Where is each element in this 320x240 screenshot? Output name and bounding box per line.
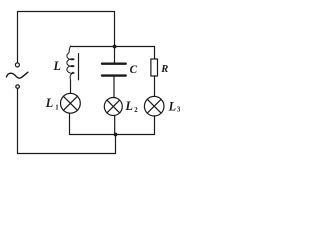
wire middle bus — [71, 46, 155, 48]
wire resistor branch top — [154, 47, 156, 60]
ac source terminal top — [15, 63, 19, 67]
wire bottom lamp bus — [70, 134, 155, 136]
capacitor label C — [130, 64, 138, 76]
svg-text:2: 2 — [134, 107, 138, 114]
wire lamp L1 to bottom bus — [69, 113, 71, 134]
label L2 — [125, 99, 139, 114]
wire inductor to lamp L1 — [70, 80, 72, 93]
inductor label L — [53, 59, 61, 73]
wire top loop: left rail upper + top wire + right drop — [18, 12, 115, 63]
svg-text:L: L — [45, 96, 53, 110]
label L1 — [45, 96, 60, 112]
lamp L1 — [61, 93, 81, 113]
resistor label R — [160, 64, 168, 75]
wire lamp L2 to bottom bus — [114, 116, 116, 135]
ac source tilde — [6, 72, 28, 78]
node junction bottom — [114, 133, 118, 137]
svg-text:L: L — [53, 59, 61, 73]
svg-text:R: R — [160, 64, 168, 75]
svg-text:C: C — [130, 64, 138, 76]
wire capacitor branch top — [114, 47, 116, 63]
wire lamp L3 to bottom bus — [154, 116, 156, 135]
wire resistor to lamp L3 — [154, 76, 156, 97]
svg-text:1: 1 — [55, 105, 59, 112]
label L3 — [168, 99, 181, 113]
wire capacitor to lamp L2 — [113, 77, 115, 98]
svg-text:L: L — [125, 99, 133, 113]
inductor L coil — [67, 46, 74, 80]
inductor L core line — [78, 54, 80, 80]
lamp L3 — [144, 96, 164, 116]
capacitor C — [102, 64, 126, 76]
lamp L2 — [104, 98, 122, 116]
resistor R — [151, 59, 158, 76]
svg-text:L: L — [168, 99, 176, 113]
wire bottom loop: left rail lower + bottom rail + return vertical — [18, 89, 116, 154]
ac source terminal bottom — [16, 85, 20, 89]
node junction top — [113, 45, 117, 49]
svg-text:3: 3 — [177, 106, 181, 113]
